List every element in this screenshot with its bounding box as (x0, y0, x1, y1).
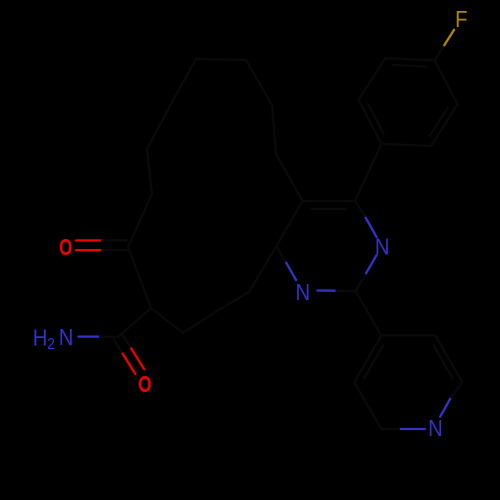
bond C4a-MA (macrocycle) (276, 154, 303, 201)
bond N1-C2 (317, 289, 355, 292)
atom N1 pyrimidine (295, 279, 310, 306)
bond MD-ME (macrocycle) (171, 59, 196, 104)
svg-text:N: N (295, 279, 310, 306)
atom N pyridine (428, 415, 443, 442)
bond Cam-N amide (79, 335, 119, 338)
bond v4-v5 (phenyl) (359, 58, 386, 100)
svg-text:N: N (59, 324, 74, 351)
bond C6-MH (macrocycle) (151, 308, 183, 333)
atom N3 pyrimidine (375, 233, 390, 260)
bond v5=C1 (double-bond inner line) (393, 65, 426, 67)
bond v3-v4 (phenyl) (359, 100, 382, 144)
bond C2-N3 (356, 255, 377, 291)
bond C4=C4a (double-bond inner line) (312, 208, 346, 210)
bond MA-MB (macrocycle) (272, 105, 276, 154)
bond F-C1 (gold half) (435, 30, 454, 61)
svg-text:2: 2 (47, 337, 55, 354)
bond v2-v3 (phenyl) (382, 144, 432, 146)
bond Npy-Pr (440, 382, 462, 417)
bond MJ-C8a (macrocycle) (249, 246, 276, 292)
bond MC-MD (macrocycle) (196, 59, 246, 60)
bond v1=v2 (double-bond inner line) (430, 108, 448, 136)
bond C4a-C8a (276, 201, 302, 246)
svg-text:O: O (138, 371, 151, 397)
bond MI-MJ (macrocycle) (217, 292, 249, 311)
bond Pl=Ptl (double-bond inner line) (364, 346, 383, 379)
bond C5-C6 (macrocycle) (128, 247, 151, 308)
bond C6-Cam (118, 308, 151, 337)
bond ME-MF (macrocycle) (147, 104, 171, 149)
bond C8a-N1 (276, 246, 296, 280)
bond v3=v4 (double-bond inner line) (368, 104, 384, 134)
bond Pr-Ptr (pyridine) (435, 335, 462, 382)
bond C5=O ketone double bond (76, 240, 127, 250)
bond v1-v2 (phenyl) (431, 104, 458, 146)
bond Ptr=Pr (double-bond inner line) (434, 346, 453, 379)
atom F (455, 6, 467, 33)
bond MF-MG (macrocycle) (147, 149, 152, 194)
svg-text:H: H (33, 324, 48, 351)
svg-text:N: N (428, 415, 443, 442)
bond N3-C4 (355, 201, 377, 237)
bond MG-C5 (macrocycle) (128, 194, 152, 247)
bond Pbl-Npy (381, 428, 425, 430)
atom N amide (H2N) - N (59, 324, 74, 351)
bond MB-MC (macrocycle) (246, 60, 272, 105)
svg-text:F: F (455, 6, 467, 33)
bond Cam=O amide double bond (114, 335, 145, 374)
atom N amide (H2N) - H (33, 324, 48, 351)
svg-text:N: N (375, 233, 390, 260)
bond v5-C1 (phenyl) (385, 58, 435, 60)
atom O ketone (59, 235, 72, 261)
bond Ptr-Ptl (pyridine) (381, 334, 435, 336)
atom O amide (138, 371, 151, 397)
svg-text:O: O (59, 235, 72, 261)
atom N amide (H2N) - subscript 2 (47, 337, 55, 354)
bond C2-Ptl (pyrimidine to pyridine) (356, 291, 382, 335)
bond Ptl-Pl (pyridine) (354, 335, 381, 382)
bond Pl-Pbl (pyridine) (354, 382, 381, 429)
bond C4-C4a (303, 200, 355, 202)
bond v3-C4 (phenyl to pyrimidine) (355, 144, 382, 201)
bond MH-MI (macrocycle) (183, 311, 217, 333)
bond C1-v1 (phenyl) (435, 60, 458, 104)
